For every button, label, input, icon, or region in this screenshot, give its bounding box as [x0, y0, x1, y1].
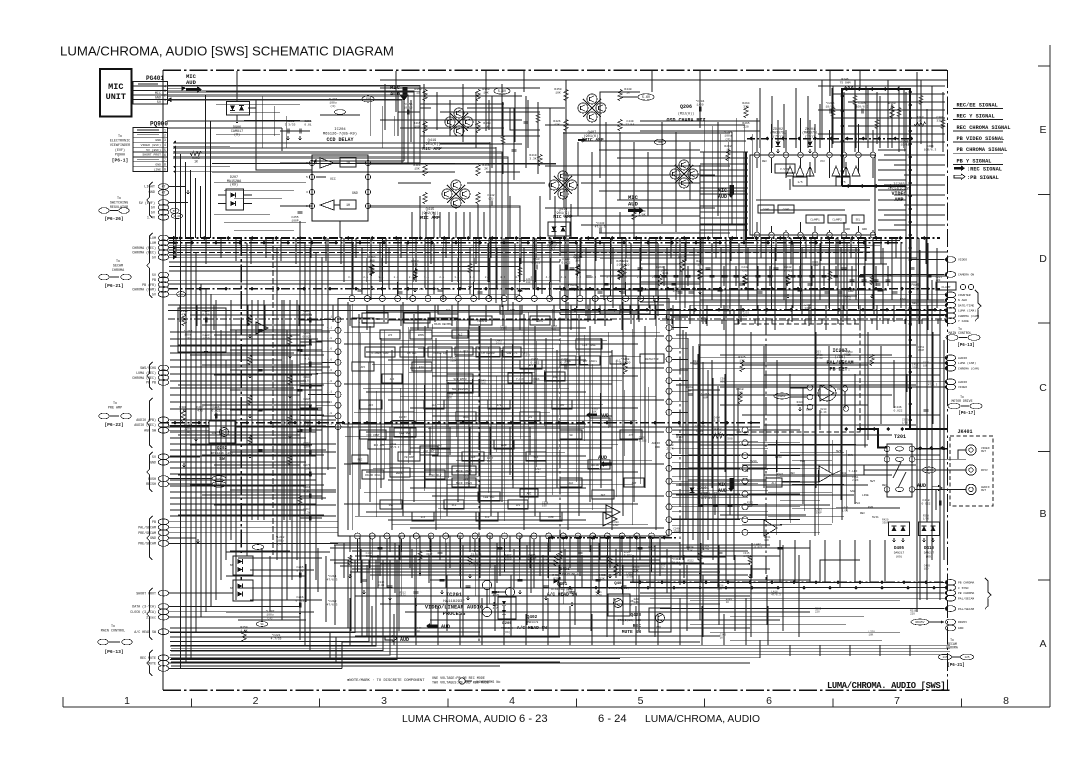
- IC207 label: [826, 348, 853, 373]
- right cluster R310 R438 500 y435: [666, 430, 733, 450]
- svg-text:2.2K: 2.2K: [845, 298, 852, 301]
- svg-text:47/6.3: 47/6.3: [327, 577, 338, 581]
- svg-text:1.4V: 1.4V: [173, 214, 181, 218]
- svg-text:GND: GND: [150, 536, 156, 540]
- vertical bus x680: [679, 238, 681, 330]
- heavy bus LUM row 2: [169, 241, 905, 245]
- wires from bottom verticals joining left fan: [330, 632, 700, 642]
- svg-text:1/50: 1/50: [500, 328, 507, 332]
- svg-text:To: To: [116, 260, 120, 264]
- svg-text:VIEWFINDER: VIEWFINDER: [110, 144, 130, 148]
- extra bus band lines: [169, 240, 900, 255]
- svg-text:2.1: 2.1: [525, 288, 530, 291]
- svg-text:3: 3: [381, 695, 387, 707]
- extend right dark vertical bundle to T201 corner: [906, 253, 912, 429]
- svg-text:AGC SW: AGC SW: [144, 428, 156, 432]
- left mid component cluster R348 C284: [178, 308, 226, 353]
- wires mid-right routing: [688, 390, 947, 508]
- svg-text:4.6: 4.6: [327, 369, 332, 372]
- svg-text:REC CHROMA SIGNAL: REC CHROMA SIGNAL: [957, 125, 1011, 131]
- svg-text:RD05V: RD05V: [915, 621, 924, 624]
- svg-text:22K: 22K: [656, 626, 661, 629]
- svg-text:4.3: 4.3: [500, 276, 505, 279]
- vertical dash-dot bus x766: [765, 238, 767, 582]
- svg-text:Y COMB: Y COMB: [358, 322, 368, 325]
- svg-text:LUMA/CHROMA, AUDIO [SWS] SCHEM: LUMA/CHROMA, AUDIO [SWS] SCHEMATIC DIAGR…: [60, 44, 394, 59]
- C446 0.022 right: [893, 406, 928, 412]
- MIC AUD mid right with down arrow: [718, 478, 734, 494]
- svg-text:GND: GND: [150, 460, 156, 464]
- svg-text:LUMA/CHROMA, AUDIO: LUMA/CHROMA, AUDIO: [645, 714, 760, 725]
- svg-text:MIC AMP: MIC AMP: [420, 215, 440, 221]
- svg-text:GND: GND: [155, 97, 161, 101]
- AUD label left arrow near 600: [598, 455, 612, 467]
- IC201 interior mesh horizontals: [344, 305, 664, 528]
- svg-text:1/50: 1/50: [923, 517, 930, 521]
- svg-text:FEB OSC: FEB OSC: [483, 496, 495, 499]
- svg-text:AUD: AUD: [441, 624, 450, 630]
- svg-text:LIGHT: LIGHT: [144, 186, 156, 190]
- verticals right of Q419 cluster: [492, 96, 550, 180]
- sheet border bottom ruler: [63, 706, 1050, 708]
- svg-text:5: 5: [164, 148, 166, 152]
- svg-text:GND: GND: [848, 290, 854, 293]
- svg-text:100/6.3: 100/6.3: [856, 104, 869, 108]
- brace right lower pins: [985, 578, 991, 609]
- svg-text:ACC: ACC: [369, 404, 374, 407]
- svg-text:470: 470: [197, 409, 203, 412]
- svg-text:LINE: LINE: [154, 167, 162, 171]
- svg-text:1: 1: [164, 98, 166, 102]
- svg-text:1: 1: [164, 128, 166, 132]
- svg-text:47/6.3: 47/6.3: [390, 445, 400, 449]
- vertical bus x841: [840, 248, 842, 500]
- IC203 bottom pin row: [754, 232, 876, 248]
- svg-text:10K: 10K: [923, 365, 928, 368]
- svg-text:COLOR KILL: COLOR KILL: [365, 474, 382, 477]
- right mid cluster C261 C260 R268: [530, 356, 745, 374]
- svg-text:10K: 10K: [592, 411, 597, 414]
- svg-text:LUMA (CAM): LUMA (CAM): [958, 309, 976, 313]
- svg-text:4.6: 4.6: [327, 358, 332, 361]
- cluster C262 L216 R312 mid right: [676, 386, 743, 442]
- svg-text:100: 100: [526, 281, 531, 284]
- svg-text:2.1: 2.1: [637, 276, 642, 279]
- transistor quad Q407 MIC AMP: [578, 94, 606, 143]
- svg-text:PAL/SECAM: PAL/SECAM: [138, 525, 156, 529]
- scatter ground symbols: [248, 284, 874, 578]
- diode pack D410: [919, 522, 940, 559]
- svg-text:5V: 5V: [152, 255, 156, 259]
- transistor Q202 SW: [209, 421, 235, 462]
- svg-text:CHROMA: CHROMA: [946, 646, 958, 650]
- transformer T201: [884, 434, 915, 497]
- vertical bus x247: [246, 243, 248, 570]
- pins 5V/PB/PB FR/CHROMA CAM/5V: [132, 272, 185, 297]
- pins DATA CLOCK 21sec: [130, 604, 168, 620]
- svg-text:3.1: 3.1: [327, 316, 332, 319]
- transistor quad Q415 MIC AMP: [420, 180, 470, 221]
- svg-text:To: To: [118, 135, 122, 139]
- svg-text:*C252: *C252: [285, 119, 294, 123]
- svg-text:1K: 1K: [918, 119, 922, 122]
- svg-text:9: 9: [164, 168, 166, 172]
- resistor cluster top right R244 C246: [695, 78, 943, 152]
- bottom-right horizontals y600-640: [690, 600, 900, 640]
- svg-text:TRESOWA: TRESOWA: [501, 627, 513, 630]
- heavy bus LUM row 1: [169, 236, 940, 240]
- svg-text:2.2K: 2.2K: [852, 479, 859, 482]
- svg-text:2.2K: 2.2K: [820, 411, 827, 414]
- svg-text:2.8: 2.8: [632, 288, 637, 291]
- vertical bus x700: [699, 165, 701, 620]
- dense drops under IC201 bottom: [350, 536, 660, 576]
- notes text bottom: [347, 677, 500, 686]
- wire mic bus from PG401 to Q419: [200, 88, 431, 108]
- pins SWS/SCHG LUMA REC CHROMA REC PB PB group: [132, 365, 168, 385]
- pin SHORT PROT: [136, 590, 168, 596]
- svg-text:HA118293F: HA118293F: [443, 600, 465, 604]
- MIC AUD vertical wire to CCD pin4: [311, 100, 404, 163]
- svg-text:[P6-1]: [P6-1]: [112, 158, 129, 164]
- svg-text:AMP: AMP: [632, 482, 637, 485]
- transistor quad Q416 MIC AMP: [549, 171, 577, 220]
- caps texture row y265-290: [662, 266, 891, 286]
- svg-text:10K: 10K: [846, 354, 851, 357]
- vertical bus x201: [200, 284, 202, 617]
- caps row y500 under pins: [698, 495, 733, 515]
- right connector pins column lower: [944, 580, 974, 612]
- svg-text:3.3u: 3.3u: [303, 511, 310, 514]
- svg-text:*R288: *R288: [619, 259, 628, 263]
- svg-text:UNIT: UNIT: [106, 92, 126, 102]
- svg-text:7: 7: [894, 695, 900, 707]
- heavy dashed bus on IC201 bottom row: [548, 536, 676, 540]
- svg-text:5V: 5V: [152, 455, 156, 459]
- svg-text:LPF: LPF: [528, 416, 533, 419]
- schematic outer frame left (dash-dot): [162, 70, 164, 690]
- svg-text:*L217: *L217: [183, 329, 192, 333]
- svg-text:1K: 1K: [194, 160, 198, 164]
- svg-text:E: E: [1039, 124, 1046, 136]
- svg-text:330P: 330P: [815, 511, 822, 514]
- svg-text:3.1: 3.1: [454, 276, 459, 279]
- ALC box right mid: [766, 478, 782, 487]
- vertical dash-dot bus x241: [240, 238, 242, 593]
- verticals right of IC201: [683, 330, 718, 560]
- svg-text:MAIN CONTROL: MAIN CONTROL: [101, 629, 125, 633]
- heavy bus to T201 corner: [844, 427, 947, 450]
- svg-text:2.5: 2.5: [586, 288, 591, 291]
- svg-text:PB PB: PB PB: [146, 381, 156, 385]
- svg-text:BPF: BPF: [529, 364, 534, 367]
- svg-text:3: 3: [164, 138, 166, 142]
- MIC AUD arrow x717 y189: [718, 185, 734, 200]
- svg-text:1K: 1K: [368, 270, 372, 273]
- connector PQ900: [133, 121, 168, 172]
- wires IC203 bottom pins down to bus: [757, 248, 873, 310]
- svg-text:220: 220: [910, 613, 915, 616]
- svg-text:6 - 23: 6 - 23: [519, 713, 548, 725]
- text To PRE AMP P6-22: [99, 402, 131, 428]
- mesh IC203 surroundings: [700, 150, 906, 230]
- left group braces: [147, 182, 153, 676]
- wires bottom left fan: [169, 632, 342, 668]
- svg-text:SW3: SW3: [912, 302, 918, 305]
- D401 diode: [553, 568, 578, 584]
- svg-text:JK401: JK401: [957, 429, 972, 435]
- svg-text:3: 3: [164, 89, 166, 93]
- svg-text:[P6-21]: [P6-21]: [104, 283, 123, 289]
- svg-text:330P: 330P: [566, 590, 573, 593]
- wires from AUDIO pins rightward: [169, 420, 209, 457]
- legend PB SIGNAL arrow: [954, 174, 999, 181]
- svg-text:DETECTOR: DETECTOR: [646, 358, 659, 361]
- label Q206 OSD CHARA MIX: [666, 104, 705, 124]
- bus CHROMA REC row 3: [169, 247, 870, 249]
- verticals under Q415 to bus: [412, 212, 484, 238]
- verticals mic amps down to bus: [420, 196, 634, 238]
- wires left pins to ICs: [169, 522, 480, 632]
- C418 cap: [921, 489, 940, 510]
- svg-text:220: 220: [797, 404, 802, 407]
- scatter caps central: [258, 289, 883, 553]
- svg-text:AGC: AGC: [569, 482, 574, 485]
- svg-text:47: 47: [162, 191, 166, 195]
- svg-text:CLAMP: CLAMP: [941, 286, 950, 289]
- svg-text:EVB: EVB: [868, 506, 873, 509]
- left mid mesh horizontals: [178, 305, 324, 515]
- vertical bus x277: [276, 248, 278, 560]
- svg-text:AUDIO (REC): AUDIO (REC): [134, 423, 156, 427]
- svg-text:10K: 10K: [764, 539, 769, 542]
- IC204 outer wires: [280, 163, 420, 238]
- svg-text:4: 4: [164, 85, 166, 89]
- svg-text:*C221: *C221: [271, 633, 280, 637]
- svg-text:22/16: 22/16: [625, 122, 634, 126]
- vertical bus x196: [195, 252, 197, 632]
- IC203 inner structure: [758, 160, 867, 231]
- svg-text:2.1: 2.1: [363, 276, 368, 279]
- svg-text:MIC: MIC: [155, 92, 161, 96]
- svg-text:DIV: DIV: [421, 516, 426, 519]
- IC201 interior mesh verticals: [348, 302, 656, 530]
- svg-text:To: To: [113, 402, 117, 406]
- svg-text:1H: 1H: [346, 204, 350, 208]
- svg-text:220: 220: [936, 279, 941, 282]
- wires around D906: [167, 95, 311, 170]
- pins AUDIO PB / AUDIO REC / AGC SW: [134, 417, 168, 433]
- IC201 top pin row: [349, 282, 659, 302]
- legend REC SIGNAL arrow: [954, 165, 1002, 172]
- vertical bus x206: [205, 289, 207, 612]
- svg-text:A/C HEAD SW: A/C HEAD SW: [134, 630, 156, 634]
- horizontal runs y560-576 center: [330, 560, 660, 572]
- svg-text:21sec: 21sec: [146, 615, 156, 619]
- svg-text:(3): (3): [725, 137, 731, 141]
- svg-text:1/50: 1/50: [902, 421, 909, 425]
- oval 5.6V node second: [494, 88, 510, 94]
- svg-text:Q402: Q402: [527, 615, 538, 620]
- svg-text:0.8: 0.8: [419, 288, 424, 291]
- svg-text:CHROMA: CHROMA: [112, 269, 125, 273]
- svg-text:*L216: *L216: [700, 392, 709, 396]
- svg-text:M65126-7(B5-K9): M65126-7(B5-K9): [323, 131, 357, 136]
- svg-text:*R268: *R268: [620, 357, 629, 361]
- cluster C281 C282 C287 left of IC201: [300, 310, 322, 521]
- svg-text:2.5: 2.5: [480, 288, 485, 291]
- wires MIC UNIT to PG401: [132, 84, 134, 109]
- ruler tick 3: [447, 699, 449, 708]
- svg-text:500: 500: [727, 437, 733, 440]
- svg-text:(3): (3): [488, 196, 494, 200]
- Q401 switch cluster parts: [471, 549, 560, 580]
- scatter resistors central: [248, 264, 874, 565]
- vertical bus x865: [864, 238, 866, 448]
- svg-text:PB AMP: PB AMP: [404, 456, 414, 459]
- wires audio bottom runs: [230, 640, 760, 663]
- svg-text:1/50: 1/50: [703, 547, 710, 551]
- left mid cluster R308 C287 area y400-430: [179, 406, 220, 441]
- dense verticals band y238-320 right half: [568, 238, 937, 324]
- svg-text:2.5: 2.5: [404, 288, 409, 291]
- svg-text:3.3K: 3.3K: [529, 157, 536, 160]
- IC201 inner triangles: [256, 322, 620, 519]
- svg-text:OUT: OUT: [981, 450, 986, 453]
- svg-text:C: C: [1039, 382, 1047, 394]
- svg-text:4: 4: [164, 143, 166, 147]
- text To SWITCHING REGULATOR P6-26: [99, 197, 129, 222]
- svg-text:5V: 5V: [151, 212, 156, 216]
- svg-text:PB CHROMA: PB CHROMA: [958, 592, 974, 595]
- svg-text:1/50: 1/50: [596, 593, 603, 597]
- svg-text:[P6-21]: [P6-21]: [947, 663, 965, 668]
- svg-text:*L202: *L202: [275, 535, 284, 539]
- svg-text:330P: 330P: [918, 349, 925, 352]
- gray double bus PQ900 to mid: [173, 142, 508, 311]
- svg-text:1/50: 1/50: [815, 352, 822, 356]
- long horizontal thin wires y262-276: [169, 262, 560, 271]
- IC203 top pin row: [754, 143, 876, 158]
- transistor Q423 REC MUTE SW: [618, 600, 671, 635]
- svg-text:6 - 24: 6 - 24: [598, 713, 627, 725]
- left mid mesh verticals x178-336 y300-655: [216, 300, 297, 620]
- cluster C215 C216 under D201: [295, 566, 337, 614]
- svg-text:220: 220: [815, 610, 820, 613]
- svg-text:(M3J(0)): (M3J(0)): [678, 112, 694, 117]
- zener ZD201: [802, 120, 818, 153]
- svg-text:0.022: 0.022: [755, 546, 763, 549]
- svg-text:3.6: 3.6: [327, 401, 332, 404]
- heavy bus y582-588 right: [560, 580, 947, 589]
- right mid mesh x680-945 y330-530: [676, 332, 940, 525]
- svg-text:BURST: BURST: [399, 416, 407, 419]
- wire PG401 5V row: [167, 99, 260, 101]
- IC204 CCD DELAY block: [323, 128, 357, 143]
- schematic outer frame right (dash-dot): [947, 70, 949, 690]
- svg-text:CLOCK (3-YCA): CLOCK (3-YCA): [130, 610, 156, 614]
- svg-text:0.1: 0.1: [304, 357, 310, 360]
- IC203 right heavy bus with diamonds: [906, 88, 912, 253]
- svg-text:47/6.3: 47/6.3: [771, 593, 781, 597]
- svg-text:LUMA (REC): LUMA (REC): [136, 371, 156, 375]
- bottom-left extra density x230-330 y550-625: [226, 548, 330, 622]
- pins 5V EVF / 5V / 5V / 1.4V: [139, 200, 188, 221]
- IC201 interior extra function boxes: [352, 305, 644, 521]
- extra verticals x700-760 y120-238: [704, 118, 760, 238]
- bus group second: rows at 275-295: [169, 280, 940, 294]
- top mid mesh x380-540 y84-150: [380, 84, 540, 148]
- top band extra x220-420 y100-150: [216, 96, 394, 148]
- svg-text:2.1: 2.1: [327, 423, 332, 426]
- svg-text:1H: 1H: [346, 162, 350, 166]
- svg-text:PAL/SECAM: PAL/SECAM: [958, 607, 974, 611]
- svg-text:0.022: 0.022: [624, 554, 632, 557]
- vertical bus x479 dash-dot: [478, 326, 480, 642]
- PHASE EQ label and small parts above IC201: [568, 274, 973, 305]
- svg-text:5: 5: [638, 695, 644, 707]
- cluster C283 C280 R288 under IC203: [531, 256, 685, 276]
- vertical bus x211: [210, 294, 212, 606]
- left vertical bus x163 reinforcement: [162, 70, 164, 690]
- svg-text:AGC: AGC: [527, 492, 532, 495]
- svg-text:115: 115: [942, 656, 947, 659]
- svg-text:330P: 330P: [747, 504, 754, 507]
- svg-text:1K: 1K: [777, 476, 781, 479]
- mid columns resistor texture: [368, 256, 792, 286]
- diode pack D405: [889, 522, 910, 559]
- svg-text:4.1: 4.1: [540, 288, 545, 291]
- svg-text:2: 2: [164, 133, 166, 137]
- svg-text:[P6-26]: [P6-26]: [104, 216, 123, 222]
- svg-text:EQ: EQ: [571, 287, 575, 291]
- svg-text:DATA (3-YCA): DATA (3-YCA): [132, 605, 156, 609]
- svg-text:4.8: 4.8: [327, 337, 332, 340]
- svg-text:(K9): (K9): [926, 555, 933, 559]
- AUD open arrow near 920: [917, 467, 942, 491]
- heavy bus y422 with diamonds: [160, 421, 760, 427]
- cluster R486 C410 bottom mid: [598, 546, 693, 580]
- svg-text:AMP: AMP: [560, 404, 565, 407]
- caps right of Q416: [595, 209, 646, 233]
- band y300-320 full width reinforcement: [168, 305, 947, 330]
- svg-text:5: 5: [306, 205, 308, 208]
- text To MAIN CONTROL P6-13: [98, 625, 132, 655]
- svg-text:DATE/TIME: DATE/TIME: [958, 303, 974, 307]
- heavy bus over IC203 top: [600, 92, 915, 178]
- right border tick 5: [1038, 579, 1050, 581]
- pin A/C HEAD SW: [134, 629, 168, 635]
- verticals from PQ900 down to bus band: [176, 95, 211, 238]
- svg-text:GND: GND: [806, 409, 811, 412]
- svg-text:PRE/SECAM: PRE/SECAM: [138, 531, 156, 535]
- svg-text:0.01: 0.01: [662, 272, 669, 275]
- wire Q415 chain: [398, 182, 545, 184]
- IC203 label: [888, 183, 912, 203]
- svg-text:SAR: SAR: [850, 490, 855, 493]
- column numbers: [124, 695, 1009, 707]
- svg-text:VCO: VCO: [485, 516, 490, 519]
- svg-text:0.01: 0.01: [400, 594, 407, 597]
- svg-text:GND: GND: [155, 138, 161, 142]
- caps C252 C256 left of IC204: [280, 119, 312, 140]
- svg-text:MOTOR DRIVE: MOTOR DRIVE: [951, 399, 972, 403]
- svg-text::REC SIGNAL: :REC SIGNAL: [967, 166, 1002, 172]
- inner thin frame top: [380, 79, 947, 81]
- svg-text:0.022: 0.022: [474, 564, 482, 567]
- svg-text:GATE: GATE: [537, 320, 544, 323]
- svg-text:VIDEO: VIDEO: [958, 259, 967, 262]
